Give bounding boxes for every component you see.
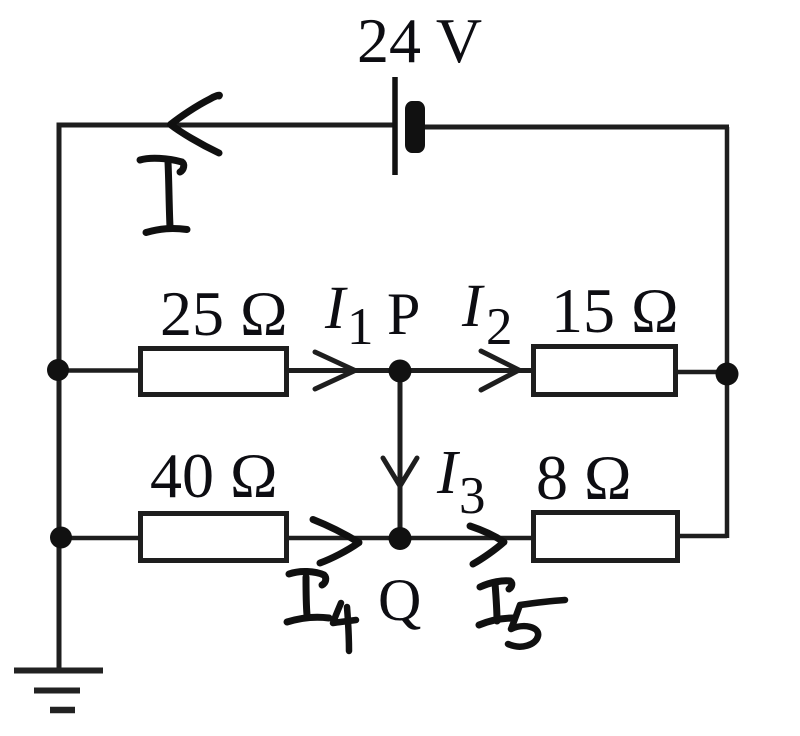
resistor 15 ohm box: [534, 347, 676, 395]
wire right vertical: [725, 127, 730, 538]
wire 8ohm to right rail: [679, 534, 727, 539]
wire P to 15ohm with arrow I2: [400, 368, 532, 373]
svg-text:I: I: [436, 439, 461, 507]
svg-text:Q: Q: [378, 567, 421, 633]
svg-text:40 Ω: 40 Ω: [150, 440, 278, 511]
wire lower branch left: [59, 536, 140, 541]
arrow I3 head: [383, 458, 417, 486]
svg-text:8 Ω: 8 Ω: [536, 442, 632, 513]
wire 25ohm to P with arrow I1: [287, 368, 400, 373]
handwritten label I: [140, 158, 184, 172]
svg-text:I: I: [461, 273, 485, 340]
handwritten label I5: [480, 581, 512, 589]
wire upper branch left: [59, 368, 140, 373]
wire Q to 8ohm: [400, 536, 532, 541]
arrow I2 head: [481, 351, 519, 390]
resistor 25 ohm box: [141, 349, 287, 395]
wire 40ohm to Q: [287, 536, 400, 541]
svg-text:3: 3: [459, 467, 486, 525]
svg-text:24 V: 24 V: [357, 5, 482, 76]
svg-text:1: 1: [347, 298, 374, 356]
wire top right horizontal: [424, 125, 729, 130]
node P dot: [389, 360, 412, 383]
wire 15ohm to right rail: [677, 370, 727, 375]
resistor 8 ohm box: [534, 513, 678, 561]
node dot left lower: [50, 527, 72, 549]
svg-text:P: P: [387, 281, 420, 347]
handwritten label I4: [289, 571, 326, 585]
svg-text:2: 2: [486, 298, 513, 356]
battery B1 short thick plate: [405, 101, 425, 153]
wire top left horizontal: [59, 123, 395, 128]
resistor 40 ohm box: [141, 514, 287, 561]
handwritten arrow I5: [470, 526, 504, 564]
wire middle vertical P to Q: [398, 371, 403, 538]
node Q dot: [389, 527, 412, 550]
svg-text:15 Ω: 15 Ω: [551, 275, 679, 346]
arrow I1 head: [315, 352, 355, 389]
svg-text:I: I: [324, 275, 348, 342]
ground symbol: [14, 668, 103, 674]
node dot right: [716, 363, 739, 386]
node dot left upper: [47, 359, 69, 381]
handwritten arrow I4: [313, 520, 359, 564]
wire left vertical: [57, 123, 62, 669]
handwritten arrow for I (top left): [171, 95, 220, 153]
battery B1 long plate: [392, 77, 398, 175]
svg-text:25 Ω: 25 Ω: [160, 278, 288, 349]
